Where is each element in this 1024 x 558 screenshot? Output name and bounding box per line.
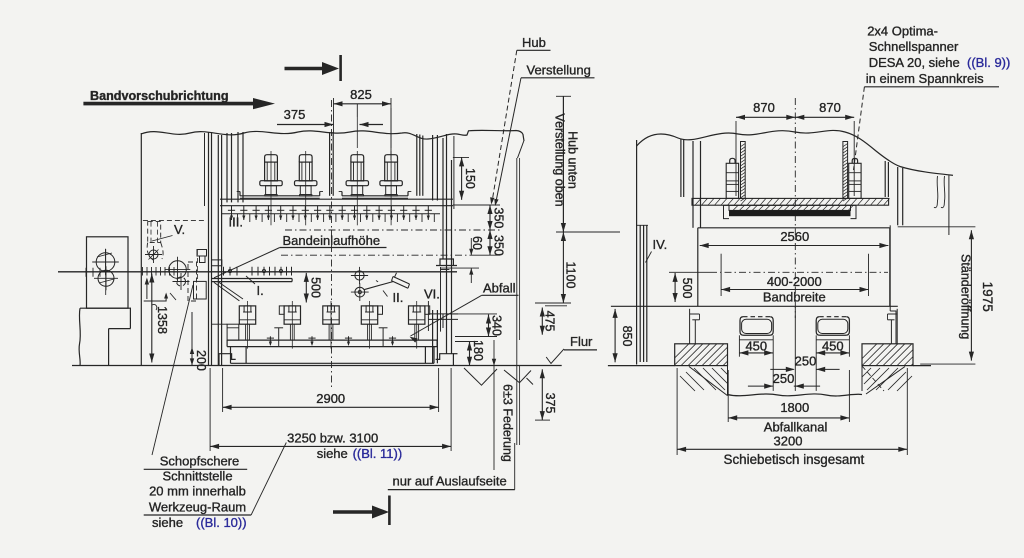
clamp tower left [726, 163, 738, 198]
bed left foot [219, 354, 236, 366]
svg-text:475: 475 [543, 311, 557, 332]
die clamps [269, 336, 271, 345]
break squiggles right [934, 176, 938, 208]
svg-text:1975: 1975 [980, 282, 995, 312]
svg-text:Abfall: Abfall [483, 281, 516, 296]
back wall right edge [518, 141, 524, 158]
ground line right view [608, 365, 675, 367]
dim 500 right view [674, 273, 676, 302]
scrap roller right [816, 317, 849, 336]
svg-text:Werkzeug-Raum: Werkzeug-Raum [149, 500, 246, 515]
right frame outer wall [442, 138, 444, 259]
svg-text:Bandbreite: Bandbreite [763, 290, 826, 305]
svg-text:375: 375 [284, 107, 306, 122]
svg-text:350: 350 [492, 235, 506, 256]
pit right slope and hatch [866, 367, 905, 395]
svg-text:siehe: siehe [152, 515, 183, 530]
upper die plate (hatched) [729, 205, 851, 210]
press bed [230, 347, 232, 364]
blank holder block [194, 281, 207, 299]
svg-text:IV.: IV. [653, 237, 668, 252]
svg-text:375: 375 [543, 393, 557, 414]
dim 1358 [151, 274, 153, 363]
svg-text:250: 250 [795, 354, 817, 369]
chute (dashed) [188, 262, 197, 301]
svg-text:Verstellung oben: Verstellung oben [553, 113, 567, 206]
svg-text:2x4 Optima-: 2x4 Optima- [867, 24, 938, 39]
top inlet thick arrow [285, 67, 324, 70]
svg-text:((Bl. 11)): ((Bl. 11)) [353, 446, 403, 461]
centre line right view [794, 98, 796, 318]
dim 375 lower [541, 369, 543, 420]
svg-text:siehe: siehe [317, 446, 348, 461]
bottom outlet thick arrow [333, 510, 373, 513]
inlet wall step [211, 260, 222, 266]
Optima leader (dashed) [854, 87, 865, 170]
right wall lines [897, 167, 899, 225]
wall side bracket [197, 250, 207, 257]
V. chopper mechanism (hidden) [143, 220, 204, 222]
dim 1800 [727, 370, 729, 422]
svg-text:Schnellspanner: Schnellspanner [869, 39, 959, 54]
band line right view [669, 271, 710, 273]
dim 200 [191, 312, 193, 365]
svg-text:I.: I. [257, 283, 264, 298]
outlet chute edge [440, 267, 442, 332]
outlet bracket right [428, 313, 458, 315]
upper die set (black bar) [729, 210, 851, 216]
punch group plate right [342, 195, 408, 197]
Flur check mark [546, 349, 564, 364]
punch 4 [385, 155, 398, 162]
left outboard stand [87, 237, 129, 308]
svg-text:500: 500 [309, 277, 323, 298]
ground line left view [72, 365, 562, 367]
window opening right edge [884, 161, 886, 197]
punch group centre lines [356, 117, 358, 148]
dim 450 right [816, 339, 849, 341]
table support bracket left [689, 309, 691, 344]
punch group plate left [240, 195, 320, 197]
foundation block left (hatched) [675, 344, 728, 366]
svg-text:180: 180 [471, 340, 485, 361]
window opening left edge [680, 139, 682, 197]
dim 850 [614, 309, 616, 362]
band strip ticks [85, 268, 87, 277]
ram bottom plate [220, 198, 453, 200]
dim 400-2000 [720, 254, 722, 296]
svg-text:3200: 3200 [774, 434, 803, 449]
svg-text:nur auf Auslaufseite: nur auf Auslaufseite [393, 474, 507, 489]
spring symbols (Federung) [464, 368, 497, 385]
svg-text:6±3 Federung: 6±3 Federung [501, 384, 515, 462]
punch 1 [265, 155, 278, 162]
leader from 3250 [251, 443, 286, 516]
svg-text:Schopfschere: Schopfschere [160, 454, 240, 469]
clamp row ticks [237, 214, 239, 222]
band centre line [58, 271, 457, 273]
ram clamp row [231, 206, 233, 220]
dim 1100 [562, 232, 564, 303]
svg-text:((Bl. 9)): ((Bl. 9)) [967, 55, 1010, 70]
punch 3 [351, 155, 364, 162]
svg-text:in einem Spannkreis: in einem Spannkreis [866, 71, 984, 86]
svg-text:60: 60 [470, 236, 484, 250]
bolster plate [227, 339, 437, 341]
svg-text:850: 850 [620, 326, 634, 347]
svg-text:DESA 20, siehe: DESA 20, siehe [869, 55, 960, 70]
right wall ground foot [436, 354, 454, 366]
svg-text:500: 500 [680, 278, 694, 299]
svg-text:340: 340 [490, 315, 504, 336]
die block I [239, 306, 255, 324]
table surface line [611, 305, 898, 307]
svg-text:((Bl. 10)): ((Bl. 10)) [196, 515, 247, 530]
II. scrap tipper [355, 271, 364, 280]
svg-text:825: 825 [350, 87, 372, 102]
svg-text:Hub: Hub [522, 35, 546, 50]
punch 2 [299, 155, 312, 162]
lower right wall lines [432, 310, 434, 363]
svg-text:1358: 1358 [155, 306, 169, 334]
sliding table body [698, 227, 890, 229]
punch group dividers [329, 132, 331, 196]
svg-text:870: 870 [753, 100, 775, 115]
Verstellung leader [496, 78, 522, 204]
dim 350 lower [489, 230, 491, 255]
einlauf hoehe dash line [281, 254, 470, 256]
svg-text:450: 450 [745, 339, 767, 354]
dim 475 [541, 308, 543, 335]
svg-text:Bandvorschubrichtung: Bandvorschubrichtung [90, 89, 229, 103]
Hub leader (dashed) [492, 50, 517, 202]
centre extension between rollers [794, 307, 796, 391]
svg-text:1100: 1100 [564, 262, 578, 289]
dim 450 left [739, 339, 773, 341]
inlet table [211, 278, 292, 280]
right wall band-level foot [440, 259, 453, 266]
svg-text:20 mm innerhalb: 20 mm innerhalb [149, 484, 246, 499]
die block 5 [409, 306, 425, 324]
right outer wall edge [948, 176, 950, 236]
inner column strip [226, 133, 228, 202]
svg-text:400-2000: 400-2000 [767, 274, 822, 289]
pit left slope and hatch [689, 367, 728, 396]
dim 3200 [676, 368, 678, 455]
chopper pivot star [149, 250, 158, 259]
ram plate (hatched) [692, 198, 889, 205]
die block 4 [361, 306, 377, 324]
svg-text:Schiebetisch insgesamt: Schiebetisch insgesamt [724, 452, 865, 467]
hub unten dash line [285, 229, 500, 231]
table support bracket right [896, 309, 898, 344]
svg-text:200: 200 [194, 350, 208, 371]
svg-text:150: 150 [463, 168, 477, 189]
wavy top edge right view [637, 130, 953, 175]
left wall shelf [227, 324, 239, 340]
die block 2 [284, 306, 300, 324]
tie rod strip left (hatched) [741, 142, 746, 199]
svg-text:Bandeinlaufhöhe: Bandeinlaufhöhe [283, 233, 381, 248]
machine centre line [331, 100, 333, 388]
svg-text:2560: 2560 [780, 229, 809, 244]
foundation block right (hatched) [862, 344, 913, 366]
dim 350 upper [453, 204, 500, 206]
die block 3 [323, 306, 339, 324]
left frame inner wall lines [208, 132, 210, 365]
band feed thick arrow [83, 102, 253, 106]
svg-text:Schnittstelle: Schnittstelle [162, 469, 232, 484]
svg-text:Verstellung: Verstellung [527, 63, 591, 78]
pit bottom (wavy) [728, 394, 863, 396]
svg-text:V.: V. [174, 222, 185, 237]
svg-text:350: 350 [492, 208, 506, 229]
svg-text:II.: II. [393, 290, 404, 305]
dim chain 150 [453, 156, 469, 158]
svg-text:Ständeröffnung: Ständeröffnung [959, 254, 973, 339]
svg-text:Abfallkanal: Abfallkanal [764, 420, 828, 435]
svg-text:Flur: Flur [570, 334, 593, 349]
scrap kick arrow [146, 279, 148, 299]
wavy top edge of left press frame [141, 130, 524, 141]
scrap roller left [740, 317, 773, 336]
dim 60 [470, 238, 472, 255]
svg-text:250: 250 [773, 371, 795, 386]
right view left outer wall [636, 140, 638, 365]
inlet table wedge [214, 282, 239, 301]
clamp tower right [849, 163, 861, 198]
dim 1975 Staenderoeffnung [898, 226, 976, 228]
svg-text:870: 870 [819, 100, 841, 115]
tie rod strip right (hatched) [843, 142, 848, 199]
svg-text:450: 450 [822, 339, 844, 354]
feed roll pair left [96, 253, 115, 272]
right frame inner wall [432, 135, 434, 201]
right-side vertical dim column: Hub unten / Verstellung oben [556, 95, 571, 97]
6+-3 Federung dim [493, 340, 495, 470]
dim 500 left view [305, 273, 307, 303]
left frame outer wall [140, 133, 142, 365]
svg-text:Hub unten: Hub unten [566, 131, 580, 189]
svg-text:2900: 2900 [316, 391, 345, 406]
svg-text:III.: III. [229, 215, 243, 230]
svg-text:1800: 1800 [780, 400, 809, 415]
dim 340 [450, 313, 497, 315]
leader to Schopfschere [152, 285, 193, 455]
right view left wall inner lines [639, 225, 641, 362]
svg-text:3250 bzw. 3100: 3250 bzw. 3100 [287, 431, 378, 446]
svg-text:VI.: VI. [424, 287, 440, 302]
dim 180 [469, 342, 471, 366]
